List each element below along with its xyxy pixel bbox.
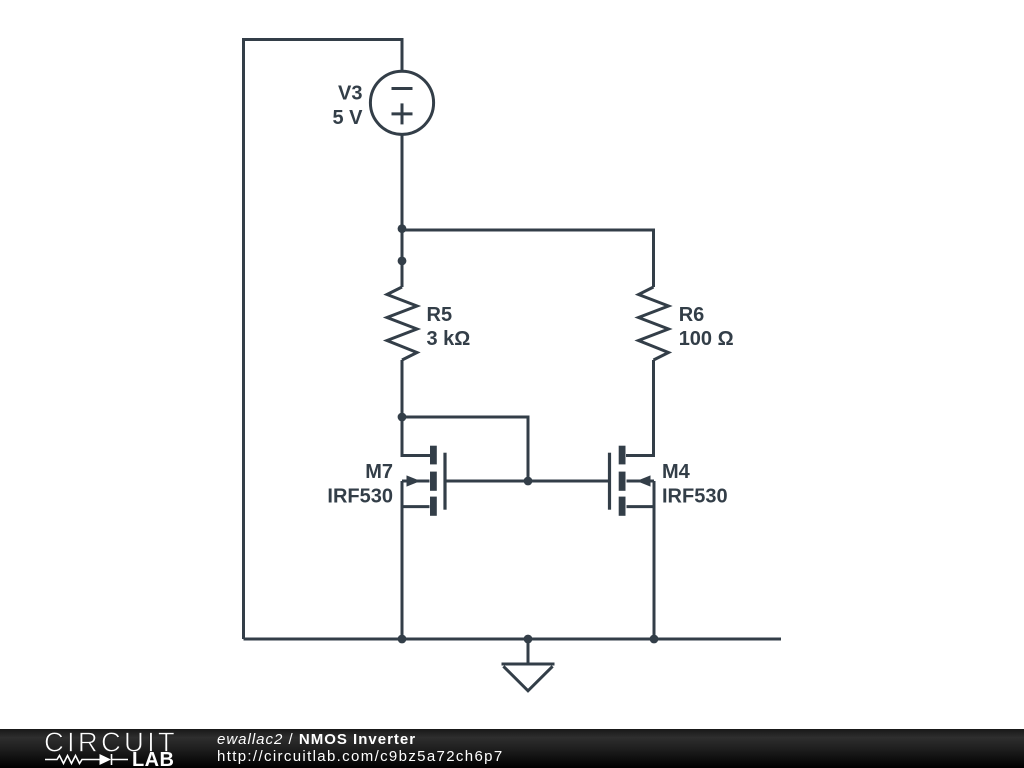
svg-text:IRF530: IRF530 <box>327 486 393 508</box>
svg-text:V3: V3 <box>338 83 362 105</box>
svg-text:IRF530: IRF530 <box>662 486 728 508</box>
svg-text:5 V: 5 V <box>332 107 363 129</box>
svg-text:3 kΩ: 3 kΩ <box>427 328 471 350</box>
svg-text:LAB: LAB <box>132 749 174 768</box>
svg-text:M4: M4 <box>662 461 691 483</box>
svg-text:R6: R6 <box>679 304 705 326</box>
svg-text:R5: R5 <box>427 304 453 326</box>
svg-text:100 Ω: 100 Ω <box>679 328 734 350</box>
svg-text:M7: M7 <box>365 461 393 483</box>
